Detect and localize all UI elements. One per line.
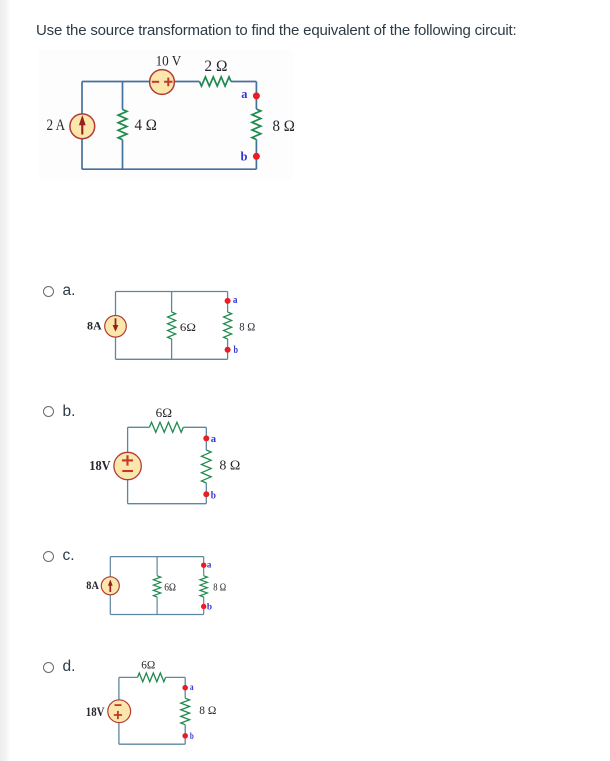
svg-text:18V: 18V (86, 704, 105, 719)
option d node b (182, 732, 193, 742)
radio option b (43, 406, 54, 417)
option c wire loop (110, 557, 203, 615)
main circuit wire loop (82, 82, 256, 170)
option c node a (201, 560, 212, 570)
option b label 8 Ω (219, 458, 240, 473)
svg-text:6Ω: 6Ω (141, 659, 155, 671)
option d node a (182, 683, 193, 693)
voltage source V1 10V (150, 70, 175, 95)
node b (main) (241, 148, 260, 163)
option a label 8 Ω (239, 320, 255, 334)
option b node a (203, 433, 216, 445)
option a label 8A (87, 318, 102, 332)
label 2 Ω (204, 58, 227, 75)
label 8 Ω (273, 118, 295, 135)
option a label 6Ω (180, 320, 196, 334)
option a wire loop (116, 292, 228, 360)
radio option d (43, 662, 54, 673)
option a node b (225, 345, 239, 356)
option d resistor 8Ω (181, 698, 190, 725)
option b resistor 6Ω (149, 422, 183, 432)
option c resistor 6Ω (153, 576, 160, 597)
option b label 18V (89, 458, 110, 473)
resistor R3 8Ω (252, 109, 261, 140)
option c label 8A (86, 580, 99, 592)
option d resistor 6Ω (138, 673, 166, 682)
option a resistor 6Ω (168, 312, 176, 339)
option b resistor 8Ω (202, 450, 212, 483)
svg-text:a: a (190, 683, 194, 693)
option c label 6Ω (164, 582, 176, 594)
option d label 18V (86, 704, 105, 719)
radio option a (43, 286, 54, 297)
option d label 8 Ω (199, 703, 216, 717)
main circuit image background (38, 50, 293, 179)
label 10 V (156, 53, 182, 69)
option d label 6Ω (141, 659, 155, 671)
option c node b (201, 603, 212, 613)
resistor R2 2Ω (200, 77, 232, 86)
resistor R1 4Ω (118, 110, 127, 140)
option d voltage source 18V (108, 700, 131, 723)
left page-edge strip (0, 0, 11, 761)
option b voltage source 18V (114, 452, 141, 479)
option a node a (225, 295, 238, 306)
label 2 A (47, 117, 66, 134)
option c current source 8A (101, 577, 119, 595)
option c resistor 8Ω (200, 576, 207, 597)
option a resistor 8Ω (224, 312, 232, 339)
option b node b (203, 489, 216, 501)
option b label 6Ω (156, 405, 172, 420)
label 4 Ω (135, 117, 158, 134)
option c label 8 Ω (213, 582, 226, 594)
node a (main) (241, 86, 260, 101)
svg-text:b: b (190, 732, 194, 742)
svg-text:8 Ω: 8 Ω (199, 703, 216, 717)
option b wire loop (128, 427, 207, 503)
radio option c (43, 551, 54, 562)
option d wire loop (119, 677, 185, 744)
option a current source 8A (105, 316, 127, 338)
current source I1 2A (70, 114, 95, 139)
